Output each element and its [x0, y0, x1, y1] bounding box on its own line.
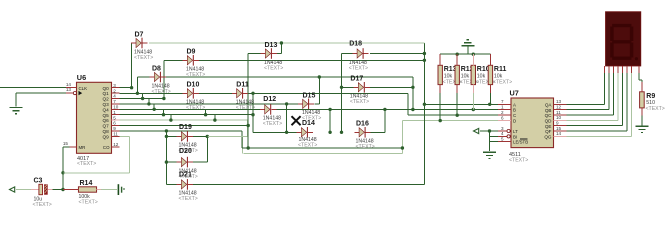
svg-text:Q1: Q1 — [103, 91, 110, 96]
wire Q0 to D7 riser — [119, 87, 131, 89]
wire D15-D14 riser — [286, 104, 288, 132]
label/value D14 — [298, 137, 317, 148]
svg-text:<TEXT>: <TEXT> — [356, 144, 375, 150]
svg-text:C: C — [513, 113, 516, 118]
U7 pin QF stub — [554, 130, 567, 132]
wire display common to R9 — [638, 73, 640, 80]
wire D7 anode riser — [131, 43, 133, 88]
node MR/feedback junction — [61, 171, 64, 174]
display pins — [604, 66, 606, 73]
U7 pin C stub — [498, 114, 511, 116]
svg-text:Q4: Q4 — [103, 107, 110, 112]
terminal arrow (LT/BI control) — [474, 128, 479, 133]
wire CLK net from left edge to U6 pin 14 — [0, 87, 66, 89]
svg-text:D7: D7 — [135, 31, 144, 38]
svg-text:<TEXT>: <TEXT> — [77, 161, 96, 167]
wire R9 to ground — [641, 116, 643, 127]
wire D19/D20/D21 anode bus — [165, 131, 167, 185]
U7 pin QE stub — [554, 125, 567, 127]
U6 pin Q9 stub — [112, 135, 120, 137]
wire B to D14 row riser — [329, 109, 331, 132]
svg-text:D20: D20 — [179, 148, 192, 155]
U6 pin 15 MR stub — [70, 146, 77, 148]
wire R10 to rail — [472, 93, 474, 110]
svg-text:<TEXT>: <TEXT> — [236, 105, 255, 111]
wire segment g to display — [567, 135, 632, 137]
wire Q9 light riser — [128, 136, 130, 172]
node D15/D14 riser — [285, 102, 288, 105]
svg-text:QD: QD — [545, 118, 553, 123]
node D8 riser on Q1 — [136, 92, 139, 95]
svg-text:13: 13 — [556, 99, 562, 104]
svg-text:14: 14 — [556, 131, 562, 136]
svg-text:<TEXT>: <TEXT> — [79, 199, 98, 205]
wire U6 MR pin down to RC junction — [63, 146, 70, 148]
U6 pin Q6 stub — [112, 119, 120, 121]
svg-text:D9: D9 — [187, 49, 196, 56]
svg-text:QE: QE — [545, 124, 552, 129]
svg-text:15: 15 — [556, 126, 562, 131]
wire Q1 rail drop to rail C — [407, 93, 409, 115]
svg-text:<TEXT>: <TEXT> — [493, 79, 512, 85]
wire C3 to node — [47, 189, 52, 191]
wire D17 cathode — [370, 86, 413, 88]
node R10 junction — [472, 108, 475, 111]
wire dark rail — [242, 147, 403, 149]
svg-text:6: 6 — [113, 121, 116, 126]
node D19/D20 join — [206, 135, 209, 138]
svg-text:LE/STB: LE/STB — [513, 140, 528, 145]
op-amp U7 4511 BCD to 7-seg body — [509, 89, 554, 164]
op-amp U6 4017 decade counter body — [77, 73, 112, 167]
svg-text:Q5: Q5 — [103, 113, 110, 118]
U7 pin LE/STB stub — [498, 141, 511, 143]
svg-text:9: 9 — [556, 121, 559, 126]
U7 pin BI stub — [498, 135, 507, 137]
diode D8 (1N4148) — [150, 65, 171, 94]
svg-text:<TEXT>: <TEXT> — [298, 142, 317, 148]
svg-text:<TEXT>: <TEXT> — [186, 72, 205, 78]
svg-text:U6: U6 — [77, 73, 86, 82]
svg-text:11: 11 — [556, 110, 561, 115]
svg-text:1: 1 — [113, 110, 116, 115]
svg-text:QA: QA — [545, 102, 553, 107]
svg-text:Q8: Q8 — [103, 129, 110, 134]
diode D7 (1N4148) — [131, 31, 153, 60]
wire Q2 to D9 riser — [119, 98, 164, 100]
svg-text:U7: U7 — [510, 89, 519, 98]
svg-text:B: B — [513, 108, 516, 113]
resistor R12 (10k) — [455, 65, 479, 85]
svg-text:Q0: Q0 — [103, 86, 110, 91]
svg-text:D19: D19 — [179, 124, 192, 131]
ground (U6 enable) — [10, 108, 23, 114]
U7 pin A stub — [498, 103, 511, 105]
diode D15 (1N4148) — [298, 92, 322, 121]
svg-text:2: 2 — [501, 110, 504, 115]
node rail A / top bundle — [423, 103, 426, 106]
diode D17 (1N4148) — [350, 76, 370, 105]
diode D11 (1N4148) — [232, 82, 255, 111]
wire segment a to display — [567, 103, 605, 105]
wire D13 riser down to dark rail — [247, 54, 249, 149]
U7 pin QC stub — [554, 114, 567, 116]
svg-text:D11: D11 — [236, 82, 249, 89]
node B/D16 cathode riser — [383, 108, 386, 111]
wire Q6 light zigzag — [246, 120, 248, 136]
wire D20 cathode riser — [193, 161, 207, 163]
wire D9 anode riser — [163, 60, 165, 98]
node bundle/D9 row — [423, 59, 426, 62]
svg-text:QC: QC — [545, 113, 553, 118]
svg-text:13: 13 — [66, 87, 72, 92]
U7 pin QA stub — [554, 103, 567, 105]
svg-text:<TEXT>: <TEXT> — [350, 99, 369, 105]
svg-text:QF: QF — [545, 129, 552, 134]
wire D15 cathode riser — [314, 103, 319, 105]
svg-text:<TEXT>: <TEXT> — [349, 65, 368, 71]
svg-text:Q9: Q9 — [103, 134, 110, 139]
svg-text:MR: MR — [79, 145, 86, 150]
svg-text:4: 4 — [113, 94, 116, 99]
svg-text:1: 1 — [501, 104, 504, 109]
wire R13 to rail — [439, 93, 441, 121]
svg-text:<TEXT>: <TEXT> — [134, 55, 153, 61]
U7 pin QG stub — [554, 135, 567, 137]
wire D7 cathode light rail — [149, 42, 425, 44]
node D17 cathode join — [411, 86, 414, 89]
U6 pin Q3 stub — [112, 103, 120, 105]
wire rail A — [424, 103, 497, 105]
svg-text:Q3: Q3 — [103, 102, 110, 107]
U6 pin 13 stub with bubble — [66, 92, 73, 94]
U7 pin QB stub — [554, 109, 567, 111]
node bus/Q8 — [165, 129, 168, 132]
svg-text:R14: R14 — [80, 180, 93, 187]
wire light link row — [207, 135, 242, 137]
svg-text:QG: QG — [544, 135, 552, 140]
wire rail D light — [402, 120, 497, 122]
wire light rail to rail D riser — [243, 153, 402, 155]
svg-text:2: 2 — [113, 88, 116, 93]
svg-text:R11: R11 — [494, 66, 507, 73]
svg-text:10: 10 — [113, 105, 119, 110]
svg-text:D18: D18 — [349, 41, 362, 48]
terminal input arrow (clock in) — [10, 187, 15, 192]
wire D16 cathode riser — [371, 131, 385, 133]
node D18 riser / D17 anode — [340, 86, 343, 89]
svg-text:<TEXT>: <TEXT> — [646, 106, 665, 112]
svg-text:D13: D13 — [265, 42, 278, 49]
svg-text:D16: D16 — [356, 121, 369, 128]
wire top bundle vertical — [423, 43, 425, 184]
U6 pin Q0 stub — [112, 87, 120, 89]
svg-text:14: 14 — [66, 82, 72, 87]
resistor R11 (10k) — [488, 65, 512, 85]
U6 pin Q8 stub — [112, 130, 120, 132]
U6 pin Q4 stub — [112, 108, 120, 110]
node R11 junction — [488, 103, 491, 106]
svg-text:11: 11 — [113, 132, 118, 137]
svg-text:5: 5 — [113, 115, 116, 120]
wire D8 cathode rail — [166, 76, 413, 78]
wire R11 to rail — [489, 93, 491, 104]
wire to C3 — [16, 189, 31, 191]
staircase riser Q4-Q5 — [205, 109, 207, 114]
svg-text:Q2: Q2 — [103, 97, 110, 102]
resistor R10 (10k) — [471, 65, 495, 85]
wire Q3 row to D15 anode — [119, 103, 297, 105]
node bus/D20 — [165, 160, 168, 163]
wire segment f to display — [567, 130, 628, 132]
wire segment c to display — [567, 114, 614, 116]
U6 pin Q7 stub — [112, 125, 120, 127]
node R13 junction — [439, 119, 442, 122]
U6 pin 14 CLK stub — [66, 87, 77, 89]
wire segment e to display — [567, 125, 623, 127]
ground (U7 control) — [483, 152, 496, 158]
staircase junction dots — [141, 97, 144, 100]
node Q2/D9 — [162, 97, 165, 100]
svg-text:<TEXT>: <TEXT> — [264, 65, 283, 71]
svg-text:15: 15 — [63, 141, 69, 146]
wire LT/BI control — [480, 130, 498, 132]
node D13 riser / dark rail — [247, 146, 250, 149]
svg-text:CO: CO — [103, 145, 110, 150]
wire D8 rail drop to rail B — [412, 77, 414, 110]
diode D18 (1N4148) — [349, 41, 369, 72]
svg-text:Q7: Q7 — [103, 124, 110, 129]
diode D9 (1N4148) — [183, 49, 206, 78]
node D13 cathode joins light rail — [280, 41, 283, 44]
U6 pin 12 CO stub (unconnected) — [112, 146, 120, 148]
svg-text:D15: D15 — [303, 92, 316, 99]
diode D19 (1N4148) — [177, 124, 198, 154]
svg-text:12: 12 — [113, 142, 119, 147]
resistor R13 (10k) — [438, 65, 462, 85]
wire node to R14 — [63, 189, 78, 191]
wire Q7 row — [119, 125, 248, 127]
U7 pin D stub — [498, 120, 511, 122]
diode D14 (1N4148) — [297, 127, 313, 138]
svg-text:D10: D10 — [187, 82, 200, 89]
ground (resistor rail, pointing up) — [467, 46, 469, 54]
svg-text:QB: QB — [545, 108, 552, 113]
wire feedback row to Q9 riser — [64, 172, 130, 174]
svg-text:5: 5 — [501, 137, 504, 142]
diode D13 (1N4148) — [261, 42, 284, 71]
wire D18 cathode — [370, 53, 424, 55]
wire D21 cathode rail — [193, 183, 424, 185]
U6 pin Q2 stub — [112, 98, 120, 100]
resistor R9 510 — [640, 92, 665, 112]
7-segment display — [606, 12, 641, 66]
wire R14 to battery — [97, 189, 102, 191]
svg-text:Q6: Q6 — [103, 118, 110, 123]
wire D18 anode riser from D14 row — [341, 54, 343, 133]
svg-text:12: 12 — [556, 104, 562, 109]
svg-text:3: 3 — [501, 126, 504, 131]
capacitor C3 10u — [33, 177, 52, 208]
svg-text:<TEXT>: <TEXT> — [179, 196, 198, 202]
svg-text:D12: D12 — [263, 96, 276, 103]
node B/D8 drop — [411, 108, 414, 111]
diode D21 (1N4148) — [177, 171, 198, 202]
node R12 junction — [456, 114, 459, 117]
svg-text:7: 7 — [113, 99, 116, 104]
node Q7/D13 riser — [247, 124, 250, 127]
node bus/D19 — [165, 135, 168, 138]
wire D19 anode row — [166, 135, 176, 137]
svg-text:D21: D21 — [179, 171, 192, 178]
node Q5 staircase crossing — [251, 92, 254, 95]
wire segment d to display — [567, 119, 619, 121]
diode D20 (1N4148) — [177, 148, 198, 180]
U7 pin LT stub — [498, 130, 507, 132]
node D15 cathode riser — [318, 75, 321, 78]
node D18 riser / D14 row — [340, 131, 343, 134]
svg-text:<TEXT>: <TEXT> — [263, 121, 282, 127]
svg-text:<TEXT>: <TEXT> — [33, 202, 52, 208]
svg-text:R9: R9 — [646, 93, 655, 100]
node Q5 staircase — [251, 113, 254, 116]
wire resistor top rail — [440, 53, 490, 55]
wire D8 anode riser — [136, 77, 138, 93]
svg-text:3: 3 — [113, 83, 116, 88]
svg-text:D17: D17 — [350, 76, 363, 83]
U6 pin Q1 stub — [112, 92, 120, 94]
excluded marker X for D14 — [292, 116, 315, 127]
resistor R14 (100k) — [78, 180, 97, 205]
node B/D16 anode riser — [328, 108, 331, 111]
node bundle/D18 row — [423, 52, 426, 55]
wire D13 anode stub row — [248, 53, 260, 55]
svg-text:D8: D8 — [152, 65, 161, 72]
node on D14 row — [285, 131, 288, 134]
svg-text:10: 10 — [556, 115, 562, 120]
wire U6 pin 13 to ground — [16, 92, 66, 94]
wire D9 cathode rail — [199, 59, 424, 61]
svg-text:CLK: CLK — [79, 86, 88, 91]
U6 pin Q5 stub — [112, 114, 120, 116]
svg-text:D14: D14 — [302, 120, 315, 127]
wire Q4 row to D12 anode — [119, 108, 260, 110]
diode D12 (1N4148) — [260, 96, 282, 127]
wire segment b to display — [567, 109, 610, 111]
node on D14 row — [328, 131, 331, 134]
svg-text:<TEXT>: <TEXT> — [152, 89, 171, 95]
svg-text:<TEXT>: <TEXT> — [509, 158, 528, 164]
U7 pin QD stub — [554, 119, 567, 121]
node dark rail / light riser — [401, 146, 404, 149]
wire Q1 row through D10 and D11 to rail C — [119, 92, 182, 94]
wire D13 cathode riser — [277, 53, 281, 55]
svg-text:C3: C3 — [34, 177, 43, 184]
wire R12 to rail — [456, 93, 458, 115]
U7 pin B stub — [498, 109, 511, 111]
node MR/C3/R14 junction — [61, 188, 64, 191]
svg-text:4: 4 — [501, 131, 504, 136]
node Q0/D7 — [130, 86, 133, 89]
wire Q6 light row — [119, 119, 247, 121]
wire Q8 drop to dark rail — [241, 131, 243, 148]
staircase riser Q5-Q6 — [214, 115, 216, 120]
wire Q8 row — [119, 130, 242, 132]
svg-text:LT: LT — [513, 129, 518, 134]
wire Q5 staircase drop to D14 row — [252, 93, 254, 132]
svg-text:<TEXT>: <TEXT> — [186, 105, 205, 111]
wire D19 cathode — [193, 135, 207, 137]
battery/power symbol — [118, 184, 125, 195]
svg-text:D: D — [513, 119, 516, 124]
ground (R9) — [636, 126, 649, 132]
wire rail B (from D12 cathode) — [277, 108, 498, 110]
svg-text:BI: BI — [513, 134, 517, 139]
svg-text:9: 9 — [113, 126, 116, 131]
wire Q5 row — [119, 114, 253, 116]
diode D10 (1N4148) — [183, 82, 206, 111]
wire D17 anode — [342, 86, 354, 88]
svg-text:6: 6 — [501, 115, 504, 120]
diode D16 (1N4148) — [354, 121, 375, 150]
